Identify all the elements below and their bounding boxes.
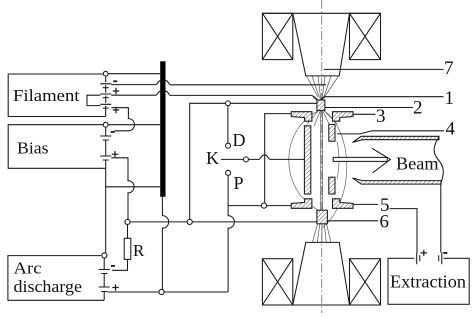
beam waist vertical lines: [321, 110, 323, 210]
svg-text:Filament: Filament: [13, 86, 80, 105]
sign + arc: [112, 284, 118, 290]
node circle bus left: [125, 219, 130, 224]
sign - filament: [113, 80, 117, 82]
extraction electrode top-right bracket: [333, 112, 354, 122]
filament box tap bracket: [87, 95, 100, 105]
extraction electrode top-left bracket (item 3): [291, 112, 312, 122]
einzel lens right top bar: [329, 124, 335, 141]
intermediate electrode funnel (top): [262, 13, 380, 76]
cathode bar (thick): [160, 61, 165, 197]
K terminal circle: [244, 157, 249, 162]
svg-text:Bias: Bias: [17, 139, 49, 158]
svg-text:1: 1: [445, 88, 455, 109]
electrode block item 6: [317, 210, 328, 224]
cathode bar bottom wire with hop over bus: [162, 197, 168, 290]
wire1 filament supply to funnel (hop over bar): [111, 81, 326, 85]
leader line 3: [353, 113, 376, 115]
D wire to anode: [230, 102, 317, 104]
leader line 5: [353, 203, 378, 205]
bottom magnet coil left (X box): [262, 259, 292, 305]
axis (vertical dash-dot center line): [321, 0, 323, 313]
beam arrow: [333, 157, 387, 161]
tube right end break curve: [434, 136, 443, 184]
sign - arc: [111, 265, 115, 267]
node circle arc top: [102, 253, 107, 258]
svg-text:discharge: discharge: [14, 277, 83, 296]
bias box: [8, 125, 108, 169]
plasma envelope right arc: [322, 110, 347, 229]
D terminal drop: [227, 106, 229, 143]
filament box: [8, 74, 108, 117]
extraction box: [388, 258, 469, 304]
top magnet coil left (X box): [262, 13, 292, 59]
wire bias node to cathode bar: [108, 124, 160, 126]
svg-text:D: D: [233, 130, 246, 150]
sign - bias: [111, 131, 115, 133]
bus wire (cathode bus to electrode 6): [130, 221, 317, 223]
fan lines funnel tip (top): [307, 76, 339, 99]
filament+ to bias wire with hop: [111, 108, 134, 131]
node circle arc+ / bar wire: [159, 289, 164, 294]
sign + filament mid: [113, 88, 119, 94]
fan lines bottom (block 6 to bottom funnel): [313, 224, 332, 242]
sign - extraction: [443, 252, 447, 254]
leader line 2: [325, 107, 413, 109]
P wire down with hop over bus: [228, 175, 234, 292]
wire bias bottom to arc node (V1): [105, 168, 107, 252]
arc discharge box: [8, 256, 104, 301]
bias battery: [105, 127, 107, 168]
bottom-left bracket electrode: [291, 199, 312, 209]
wire from 5 to extraction supply: [390, 209, 418, 253]
fan lines below anode: [307, 111, 337, 127]
arc+ bus wire: [108, 291, 228, 293]
P terminal circle: [226, 170, 231, 175]
arc battery: [103, 258, 105, 300]
node circle bias top: [103, 122, 108, 127]
K wire: [221, 158, 243, 160]
node circle filament top: [103, 71, 108, 76]
svg-text:6: 6: [380, 212, 390, 233]
wire from filament node to cathode bar: [108, 73, 160, 75]
D/K riser wire: [190, 103, 226, 219]
bottom funnel: [262, 242, 380, 305]
wire tube to extraction supply: [440, 184, 442, 252]
filament battery: [105, 76, 107, 116]
wire cup bottom left to P riser: [228, 205, 261, 207]
top magnet coil right (X box): [350, 13, 381, 59]
leader line 1: [325, 96, 444, 98]
sign + bias: [112, 151, 118, 157]
wire2 filament supply to anode aperture (hop over bar): [111, 91, 312, 95]
svg-text:2: 2: [413, 98, 423, 119]
wire H1 junction to cathode bar: [106, 186, 160, 188]
svg-text:K: K: [206, 148, 219, 168]
number labels: [376, 58, 456, 233]
svg-text:R: R: [133, 241, 145, 260]
envelope inner right arc: [337, 142, 339, 179]
einzel lens right bottom bar: [329, 177, 335, 194]
svg-text:P: P: [234, 173, 244, 193]
leader line 4: [337, 131, 444, 134]
bottom magnet coil right (X box): [350, 259, 381, 305]
plasma envelope left arc: [289, 110, 322, 212]
svg-text:7: 7: [444, 58, 454, 79]
K wire continues with hop over cup wall: [249, 155, 305, 159]
svg-text:3: 3: [376, 106, 386, 127]
node circle on D wire: [226, 101, 231, 106]
einzel lens left bar: [304, 126, 310, 194]
wire cup bottom right to electrode: [267, 205, 292, 207]
extraction battery on top edge: [414, 257, 443, 261]
beam tube top wall: [353, 136, 440, 142]
leader line 6: [327, 220, 378, 222]
bottom-right bracket electrode (item 5): [333, 199, 354, 209]
expansion cup outline: [265, 114, 292, 203]
svg-text:Arc: Arc: [14, 259, 42, 278]
sign + filament bottom: [113, 107, 119, 113]
resistor R: [112, 225, 128, 271]
bias+ descender wire with hop over H1: [111, 158, 134, 220]
leader line 7: [324, 68, 444, 70]
beam tube bottom wall: [353, 178, 442, 184]
svg-text:Beam: Beam: [396, 154, 439, 174]
svg-text:Extraction: Extraction: [390, 271, 466, 291]
node circle riser on bus: [187, 219, 192, 224]
D terminal circle: [226, 143, 231, 148]
sign + extraction: [421, 250, 427, 256]
node circle cup bottom: [261, 203, 266, 208]
svg-text:4: 4: [446, 119, 456, 140]
anode block with conical aperture (items 1/2): [313, 96, 325, 100]
